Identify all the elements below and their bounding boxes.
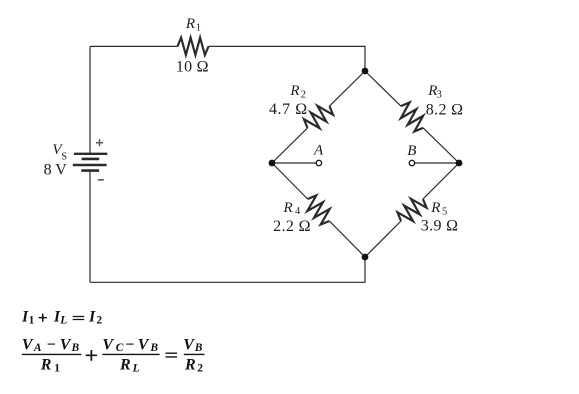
svg-text:2.2 Ω: 2.2 Ω [273, 218, 311, 235]
wire node B to right-node [415, 162, 459, 164]
svg-text:VS: VS [52, 142, 67, 163]
wire left vertical lower [89, 172, 91, 283]
svg-text:VA−VB: VA−VB [22, 336, 80, 354]
wire top-node to R3 [365, 71, 401, 106]
wire bottom-node to R5 [365, 221, 401, 257]
svg-text:R1: R1 [185, 16, 201, 34]
svg-text:B: B [407, 143, 416, 159]
svg-text:A: A [313, 143, 324, 159]
svg-text:RL: RL [119, 357, 140, 375]
svg-text:R3: R3 [427, 83, 442, 101]
resistor R5 [395, 193, 429, 227]
junction node top [362, 68, 369, 75]
node A terminal circle [316, 160, 321, 165]
svg-text:8.2 Ω: 8.2 Ω [426, 101, 463, 118]
svg-text:VC−VB: VC−VB [102, 336, 158, 354]
wire top-left horizontal [90, 45, 178, 47]
svg-text:R4: R4 [283, 200, 302, 217]
junction node left [269, 160, 276, 167]
resistor R4 [301, 193, 335, 227]
battery minus sign [98, 179, 104, 181]
wire left vertical upper [89, 46, 91, 152]
svg-text:R1: R1 [40, 357, 61, 375]
svg-text:4.7 Ω: 4.7 Ω [269, 101, 307, 118]
junction node right [456, 160, 463, 167]
equation 2 plus sign [86, 350, 97, 361]
battery VS plate short bottom [81, 169, 99, 172]
svg-text:I1ILI2: I1ILI2 [21, 308, 102, 326]
resistor R2 [301, 100, 335, 134]
battery VS plate long top [74, 153, 107, 155]
wire R3 to right-node [423, 128, 459, 163]
wire left-node to node A [272, 162, 316, 164]
svg-text:R2: R2 [184, 357, 203, 375]
svg-text:10 Ω: 10 Ω [176, 58, 209, 75]
equation 2 fraction bar 2 [102, 353, 159, 355]
resistor R1 [178, 38, 209, 55]
battery plus sign [96, 139, 103, 146]
equation 2 fraction bar 3 [184, 353, 205, 355]
wire bottom horizontal [90, 257, 365, 282]
equation 2 equals sign [166, 353, 178, 357]
svg-text:3.9 Ω: 3.9 Ω [421, 218, 458, 235]
wire R4 to bottom-node [329, 221, 365, 257]
wire top-right horizontal [209, 46, 366, 71]
battery VS plate long [73, 164, 107, 167]
wire diagonal top-node to R2 [330, 71, 366, 106]
svg-text:R2: R2 [289, 83, 306, 100]
node B terminal circle [409, 160, 414, 165]
equation 1 plus sign [39, 314, 47, 322]
junction node bottom [362, 254, 369, 261]
resistor R3 [395, 100, 429, 134]
wire R2 to left-node [272, 128, 308, 163]
equation 1 equals sign [73, 317, 85, 320]
wire R5 to right-node [423, 163, 459, 199]
equation 2 fraction bar 1 [22, 353, 81, 355]
wire left-node to R4 [272, 163, 308, 199]
svg-text:R5: R5 [430, 200, 447, 218]
svg-text:8 V: 8 V [44, 161, 68, 178]
svg-text:VB: VB [183, 336, 203, 354]
battery VS plate short [82, 158, 100, 161]
